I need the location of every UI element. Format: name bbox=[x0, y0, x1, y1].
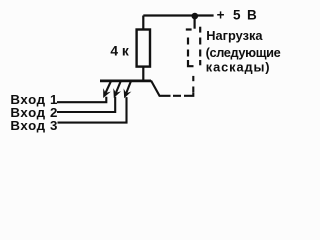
transistor VT1: emitter 1 lead with arrow bbox=[103, 82, 111, 99]
wire: input 1 to emitter 1 bbox=[57, 97, 106, 102]
wire: input 3 to emitter 3 bbox=[58, 97, 127, 123]
wire: dashed corner up from collector run bbox=[191, 93, 194, 96]
resistor R1 body bbox=[137, 30, 150, 67]
transistor VT1 (multi-emitter): base bar bbox=[100, 80, 151, 83]
svg-text:Вход 3: Вход 3 bbox=[10, 118, 58, 133]
svg-text:Нагрузка: Нагрузка bbox=[206, 28, 263, 43]
wire: +5V top rail bbox=[143, 14, 213, 16]
wire: junction dot stem down to load box top bbox=[194, 18, 196, 29]
transistor VT1: emitter 3 lead with arrow bbox=[124, 82, 132, 99]
wire: rail down to resistor top bbox=[142, 16, 144, 31]
wire: resistor bottom to base bbox=[142, 67, 144, 81]
svg-text:4 к: 4 к bbox=[110, 44, 129, 59]
wire: collector to load, dashed horizontal bbox=[173, 95, 191, 97]
load box (dashed rectangle), left side bbox=[186, 30, 194, 67]
svg-text:(следующие: (следующие bbox=[206, 45, 281, 60]
wire: dashed vertical up to load box bottom bbox=[192, 76, 194, 92]
svg-text:+5В: +5В bbox=[217, 8, 257, 23]
transistor VT1: emitter 2 lead with arrow bbox=[113, 82, 121, 99]
load box (dashed rectangle), right side bbox=[199, 27, 201, 66]
wire: input 2 to emitter 2 bbox=[57, 97, 115, 112]
transistor VT1: collector lead bbox=[151, 81, 171, 96]
node: junction dot on +5V rail bbox=[192, 13, 199, 20]
svg-text:каскады): каскады) bbox=[206, 60, 271, 75]
